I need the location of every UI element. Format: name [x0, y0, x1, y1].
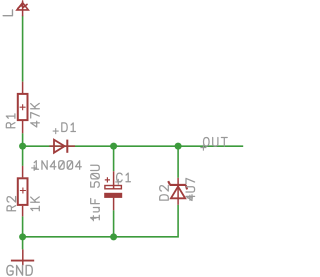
label C1 — [117, 173, 131, 182]
wire C1 bottom branch — [113, 210, 115, 237]
label D1 — [62, 123, 76, 132]
wire bottom ground bus and D2 leg — [23, 205, 179, 237]
wire net between R1 and R2 — [22, 133, 24, 166]
node junction J1 — [19, 143, 26, 150]
supply symbol L (live) — [17, 1, 28, 16]
R1 origin cross — [20, 104, 26, 110]
wire net OUT horizontal — [23, 145, 244, 147]
wire net R2 to GND — [22, 216, 24, 249]
value 1uF 50U — [91, 165, 100, 219]
label R1 — [6, 114, 15, 128]
D1 name origin cross — [53, 128, 59, 134]
node junction J3 — [175, 143, 182, 150]
resistor R1 — [18, 82, 28, 134]
wire D2 top branch — [177, 146, 179, 178]
value 4U7 — [186, 178, 195, 200]
label R2 — [7, 197, 16, 211]
C1 name origin cross — [115, 179, 121, 185]
label GND — [7, 265, 32, 275]
resistor R2 — [18, 166, 28, 217]
D1 value origin cross — [31, 165, 37, 171]
value 47K — [31, 103, 40, 127]
zener diode D2 — [168, 178, 187, 205]
node junction J5 — [110, 233, 117, 240]
C1 value origin cross — [90, 215, 96, 221]
capacitor C1 (polarized) — [104, 171, 122, 210]
OUT label origin cross — [200, 145, 206, 151]
R2 origin cross — [20, 188, 26, 194]
value 1K — [31, 197, 40, 211]
diode D1 — [49, 140, 75, 153]
ground symbol — [11, 249, 34, 265]
wire net L vertical top — [22, 16, 24, 82]
value 1N4004 — [34, 161, 81, 170]
wire C1 top branch — [113, 146, 115, 171]
node junction J4 — [19, 233, 26, 240]
node junction J2 — [110, 143, 117, 150]
D2 value origin cross — [187, 195, 193, 201]
net label OUT — [204, 138, 228, 147]
label D2 — [160, 186, 169, 201]
label L — [3, 10, 12, 16]
